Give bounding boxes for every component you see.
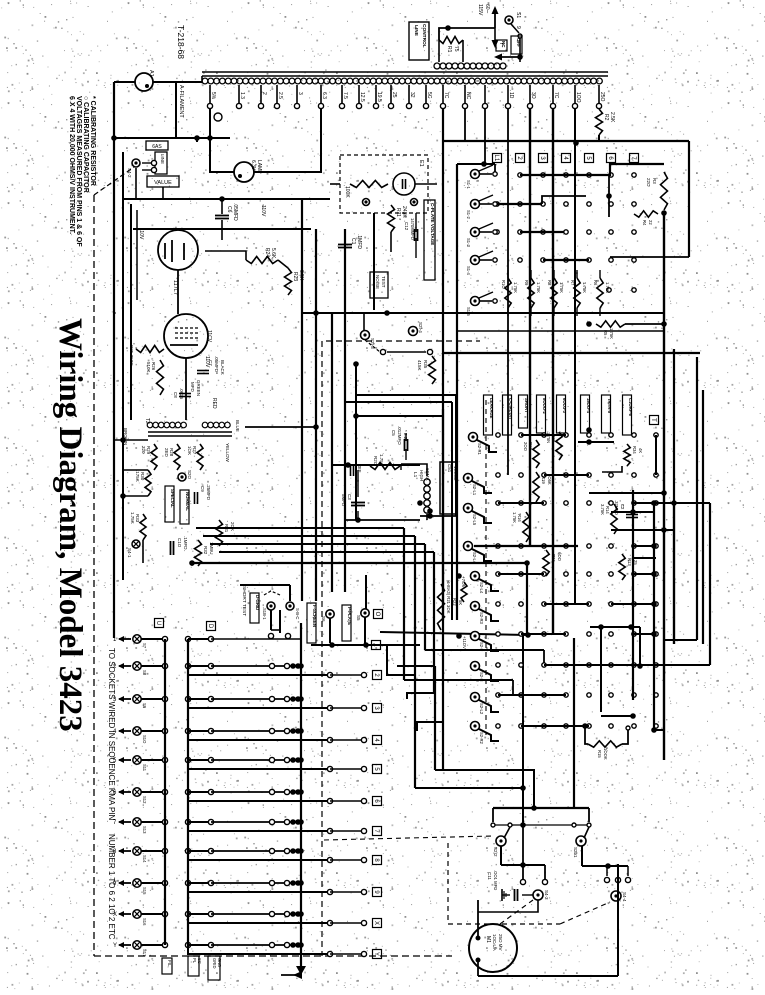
svg-text:3: 3 — [297, 92, 303, 95]
svg-text:1.75K: 1.75K — [609, 328, 614, 339]
svg-text:A-FILAMENT: A-FILAMENT — [178, 85, 184, 118]
svg-text:19.5: 19.5 — [376, 92, 382, 102]
svg-text:LINE: LINE — [160, 154, 165, 164]
svg-text:○ CALIBRATING CAPACITOR: ○ CALIBRATING CAPACITOR — [82, 96, 89, 193]
svg-text:GND: GND — [217, 958, 222, 967]
svg-text:T-218-68: T-218-68 — [176, 25, 186, 59]
svg-text:S13: S13 — [142, 826, 147, 834]
svg-text:R2O: R2O — [373, 456, 378, 466]
svg-text:510K: 510K — [146, 362, 151, 373]
svg-text:A1: A1 — [148, 70, 154, 77]
svg-text:S2-L1: S2-L1 — [472, 484, 477, 496]
svg-text:E1: E1 — [418, 160, 424, 167]
svg-text:1.75K: 1.75K — [536, 282, 541, 293]
svg-text:C-PLATE VOLTAGE: C-PLATE VOLTAGE — [430, 203, 435, 245]
svg-text:R1O: R1O — [501, 280, 506, 289]
svg-text:S1O: S1O — [142, 735, 147, 744]
svg-text:5C: 5C — [426, 92, 432, 99]
svg-text:R35: R35 — [423, 360, 428, 369]
svg-text:1.75K: 1.75K — [513, 282, 518, 293]
svg-text:S1-2: S1-2 — [466, 210, 471, 220]
svg-text:VOLTAGES MEASURED FROM PINS 1: VOLTAGES MEASURED FROM PINS 1 & 6 OF — [75, 96, 82, 247]
svg-text:25O MV: 25O MV — [498, 934, 503, 951]
svg-text:C1: C1 — [350, 238, 356, 245]
svg-text:S14: S14 — [142, 855, 147, 863]
svg-text:S1: S1 — [515, 12, 521, 18]
svg-text:25: 25 — [391, 92, 397, 98]
svg-text:C1O: C1O — [177, 538, 182, 548]
svg-text:60∼: 60∼ — [484, 4, 490, 14]
svg-text:GREEN: GREEN — [196, 380, 201, 396]
svg-text:6OO: 6OO — [557, 552, 562, 562]
svg-text:25O: 25O — [599, 92, 605, 102]
svg-text:VALUE: VALUE — [154, 180, 172, 186]
svg-text:LINE: LINE — [413, 25, 419, 37]
svg-text:(6-8IA3) R21 2OK: (6-8IA3) R21 2OK — [446, 580, 451, 614]
svg-text:RED: RED — [211, 398, 217, 409]
svg-text:S2-L2: S2-L2 — [479, 703, 484, 715]
svg-text:X: X — [373, 921, 379, 925]
svg-text:.175K: .175K — [135, 470, 140, 482]
svg-text:S9: S9 — [142, 703, 147, 709]
svg-text:1OO: 1OO — [575, 92, 581, 103]
svg-text:T: T — [650, 418, 656, 422]
svg-text:SC: SC — [197, 958, 202, 964]
svg-text:C12: C12 — [404, 222, 409, 231]
svg-text:22: 22 — [648, 220, 653, 225]
svg-text:F-SCREEN: F-SCREEN — [312, 605, 317, 627]
svg-text:S2-L4: S2-L4 — [472, 552, 477, 564]
svg-text:R1: R1 — [446, 46, 452, 53]
svg-text:S2-L4: S2-L4 — [479, 582, 484, 594]
svg-text:NUMBER 1 TO 6 2 1O 2 ETC: NUMBER 1 TO 6 2 1O 2 ETC — [107, 834, 116, 940]
svg-text:1470MMFD: 1470MMFD — [410, 218, 415, 240]
svg-text:R8: R8 — [547, 280, 552, 286]
svg-text:S2-R3: S2-R3 — [479, 612, 484, 625]
svg-text:P-PLATE: P-PLATE — [347, 607, 352, 625]
svg-text:3O: 3O — [530, 92, 536, 99]
svg-text:S2)2: S2)2 — [493, 847, 498, 857]
svg-text:U: U — [155, 621, 161, 625]
svg-text:S2-R1: S2-R1 — [477, 443, 482, 456]
svg-text:4K: 4K — [638, 448, 643, 453]
svg-text:115V: 115V — [477, 4, 483, 16]
svg-text:415K: 415K — [417, 360, 422, 371]
svg-text:1.75K: 1.75K — [512, 512, 517, 523]
svg-text:S1-3: S1-3 — [466, 238, 471, 248]
svg-text:C3: C3 — [347, 494, 352, 500]
svg-text:1.75K: 1.75K — [130, 512, 135, 524]
svg-text:C5: C5 — [391, 430, 396, 436]
svg-text:S17: S17 — [142, 949, 147, 957]
svg-text:C9: C9 — [200, 486, 205, 492]
svg-text:R15: R15 — [597, 750, 602, 758]
svg-text:6AS: 6AS — [152, 144, 162, 150]
svg-text:R3: R3 — [652, 178, 657, 184]
svg-text:R32: R32 — [203, 546, 208, 555]
svg-text:.1MFD: .1MFD — [356, 234, 362, 249]
svg-text:R24: R24 — [264, 248, 270, 257]
svg-text:S2-N: S2-N — [479, 672, 484, 682]
svg-text:C1ORF-6: C1ORF-6 — [628, 398, 633, 417]
svg-text:MFD: MFD — [190, 382, 195, 392]
svg-text:.012MFO: .012MFO — [397, 426, 402, 445]
svg-text:R36: R36 — [551, 554, 556, 562]
svg-text:6.3V: 6.3V — [250, 160, 256, 171]
svg-text:R22: R22 — [452, 598, 457, 606]
svg-text:R6: R6 — [593, 280, 598, 286]
svg-text:2OK: 2OK — [230, 522, 235, 531]
svg-text:S8: S8 — [142, 670, 147, 676]
svg-text:S11: S11 — [142, 764, 147, 772]
svg-text:S7: S7 — [142, 643, 147, 649]
svg-text:5%: 5% — [210, 92, 216, 100]
svg-text:C2: C2 — [620, 504, 625, 510]
svg-text:S12: S12 — [142, 796, 147, 804]
svg-text:TEST: TEST — [381, 276, 386, 288]
svg-text:D: D — [207, 624, 213, 629]
svg-text:1.75K: 1.75K — [379, 454, 384, 466]
svg-text:R19: R19 — [541, 476, 546, 484]
svg-text:S2-R2: S2-R2 — [479, 732, 484, 745]
svg-text:7C: 7C — [553, 92, 559, 99]
svg-text:O: O — [374, 612, 380, 617]
svg-text:M1: M1 — [485, 936, 491, 943]
svg-text:GRID: GRID — [212, 958, 217, 968]
svg-text:HIGH: HIGH — [419, 470, 424, 481]
svg-text:110V: 110V — [260, 205, 266, 217]
svg-text:NC: NC — [465, 92, 471, 100]
svg-text:Y: Y — [113, 943, 117, 949]
svg-text:S2O: S2O — [187, 470, 192, 480]
svg-text:T2: T2 — [144, 418, 150, 424]
svg-text:.1MFD: .1MFD — [183, 536, 188, 550]
svg-text:R5: R5 — [603, 330, 608, 336]
svg-text:SHORT TEST: SHORT TEST — [241, 586, 247, 616]
svg-text:C7: C7 — [208, 360, 213, 366]
svg-text:6.3: 6.3 — [321, 92, 327, 99]
svg-text:SHORT: SHORT — [524, 398, 529, 413]
svg-text:S4-1: S4-1 — [127, 548, 132, 558]
svg-text:11CV: 11CV — [206, 330, 212, 343]
svg-text:R4: R4 — [642, 220, 647, 226]
svg-text:R2: R2 — [603, 114, 609, 121]
svg-text:* CALIBRATING RESISTOR: * CALIBRATING RESISTOR — [89, 96, 96, 186]
svg-text:CONTROL: CONTROL — [421, 24, 427, 48]
svg-text:Wiring Diagram, Model 3423: Wiring Diagram, Model 3423 — [52, 318, 88, 732]
svg-text:S-B-C: S-B-C — [295, 608, 300, 619]
svg-text:S1-5: S1-5 — [466, 307, 471, 317]
svg-text:PL: PL — [192, 958, 197, 964]
svg-text:FIL: FIL — [167, 960, 172, 967]
svg-text:S15: S15 — [142, 887, 147, 895]
svg-text:R34: R34 — [632, 446, 637, 454]
svg-text:S2-P: S2-P — [479, 642, 484, 652]
svg-text:2OO: 2OO — [523, 442, 528, 452]
svg-text:S1B-1: S1B-1 — [262, 608, 267, 620]
svg-text:L1: L1 — [412, 472, 418, 478]
svg-text:100K: 100K — [344, 186, 350, 198]
svg-text:1.75K: 1.75K — [559, 282, 564, 293]
svg-text:TO SOCKETS WIRED IN SEQUENCE K: TO SOCKETS WIRED IN SEQUENCE KMA PIN — [107, 648, 116, 821]
svg-text:1GOO2: 1GOO2 — [453, 466, 458, 481]
svg-text:S16: S16 — [142, 918, 147, 926]
svg-text:S5: S5 — [356, 615, 361, 621]
svg-text:1.75K: 1.75K — [605, 282, 610, 293]
svg-text:6 X 4 WITH 20,000 OHMS/V INSTR: 6 X 4 WITH 20,000 OHMS/V INSTRUMENT. — [68, 96, 75, 234]
svg-text:C6: C6 — [226, 206, 232, 213]
svg-text:R23: R23 — [292, 272, 298, 281]
svg-text:R25-250G: R25-250G — [129, 345, 134, 366]
svg-text:R11 *: R11 * — [395, 208, 401, 220]
svg-text:S2-L5: S2-L5 — [472, 514, 477, 526]
svg-text:75: 75 — [453, 46, 459, 52]
svg-text:8OOO-2: 8OOO-2 — [542, 398, 547, 414]
svg-text:C11: C11 — [487, 872, 492, 880]
svg-text:2ED: 2ED — [164, 448, 169, 458]
svg-text:NC: NC — [501, 41, 506, 48]
svg-text:LEAKAGE: LEAKAGE — [489, 398, 494, 419]
svg-text:1.3: 1.3 — [239, 92, 245, 99]
svg-text:SPECIAL: SPECIAL — [170, 489, 175, 508]
svg-text:1.75N: 1.75N — [546, 432, 551, 443]
svg-text:1OOK: 1OOK — [603, 748, 608, 760]
svg-text:S1-1: S1-1 — [466, 180, 471, 190]
svg-text:2: 2 — [261, 92, 267, 95]
svg-text:NOISE: NOISE — [375, 275, 380, 289]
svg-text:1.75K: 1.75K — [582, 282, 587, 293]
svg-text:2.5K: 2.5K — [609, 112, 615, 123]
svg-text:S4-3: S4-3 — [544, 890, 549, 900]
svg-text:32: 32 — [409, 92, 415, 98]
svg-text:+11OV: +11OV — [462, 636, 467, 649]
svg-text:R7: R7 — [570, 280, 575, 286]
svg-text:2.5: 2.5 — [277, 92, 283, 99]
svg-text:1D: 1D — [508, 92, 514, 99]
svg-text:S6: S6 — [321, 616, 326, 622]
svg-text:BLACK: BLACK — [220, 360, 225, 375]
svg-text:7.5: 7.5 — [342, 92, 348, 99]
svg-text:1OK: 1OK — [187, 446, 192, 455]
svg-text:5.6K: 5.6K — [270, 248, 276, 259]
svg-text:3.75K: 3.75K — [600, 504, 605, 515]
svg-text:5MFD: 5MFD — [341, 494, 346, 507]
svg-text:Y: Y — [373, 952, 379, 956]
svg-text:THYR-5: THYR-5 — [607, 398, 612, 414]
svg-text:22O: 22O — [646, 178, 651, 187]
svg-text:+7OV: +7OV — [461, 576, 466, 588]
svg-text:.05MFD: .05MFD — [232, 203, 238, 221]
svg-text:7C: 7C — [443, 92, 449, 99]
svg-text:C51: C51 — [447, 464, 452, 473]
svg-text:C-CIRCUIT: C-CIRCUIT — [508, 398, 513, 420]
svg-text:D-GRID: D-GRID — [255, 595, 260, 610]
svg-text:.25MFD: .25MFD — [206, 484, 211, 501]
svg-text:BLUE: BLUE — [235, 420, 240, 432]
svg-text:.OO1 MFD: .OO1 MFD — [493, 870, 498, 890]
svg-text:L1: L1 — [493, 155, 499, 162]
svg-text:110V: 110V — [138, 228, 144, 240]
svg-text:C8: C8 — [173, 392, 178, 398]
svg-text:S2b1: S2b1 — [573, 847, 578, 858]
svg-text:5K: 5K — [458, 600, 463, 605]
svg-text:.0025: .0025 — [179, 388, 184, 400]
svg-text:NORMAL: NORMAL — [185, 492, 190, 511]
svg-text:S4-2: S4-2 — [127, 168, 132, 178]
svg-text:.05MFD: .05MFD — [214, 356, 219, 373]
svg-text:S1-4: S1-4 — [466, 266, 471, 276]
svg-text:320: 320 — [141, 446, 146, 454]
svg-text:S4-4: S4-4 — [622, 892, 627, 902]
svg-text:S2I-4: S2I-4 — [418, 322, 423, 333]
svg-text:1OC UA: 1OC UA — [492, 934, 497, 951]
svg-text:R9: R9 — [524, 280, 529, 286]
svg-text:18OO-4: 18OO-4 — [586, 398, 591, 414]
svg-text:243K: 243K — [401, 206, 407, 218]
svg-text:6OO3-3: 6OO3-3 — [562, 398, 567, 414]
svg-text:R13: R13 — [627, 558, 632, 566]
svg-text:YELLOW: YELLOW — [225, 443, 230, 463]
svg-text:12.5: 12.5 — [359, 92, 365, 102]
